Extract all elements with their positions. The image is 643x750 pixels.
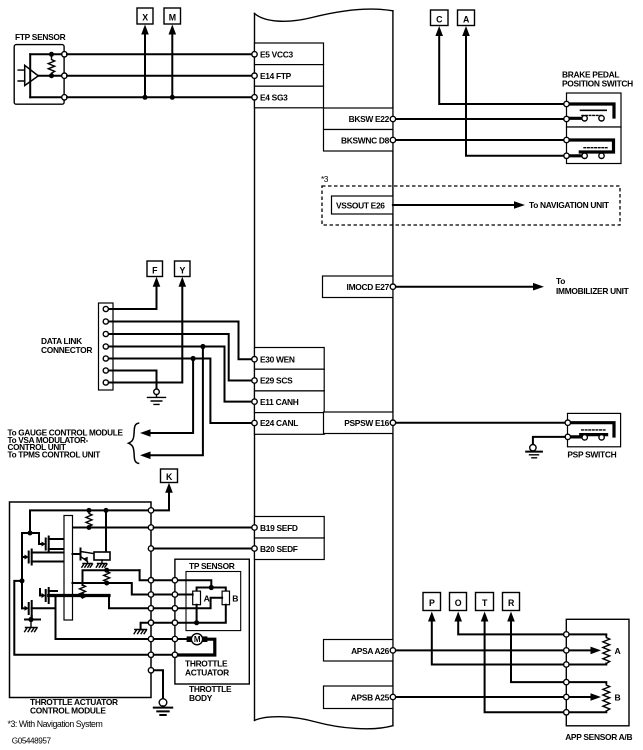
svg-text:*3: *3 <box>321 174 329 184</box>
node B20 SEDF <box>252 546 257 551</box>
svg-text:A: A <box>615 646 621 656</box>
wire DLC pin7 to Y <box>107 285 182 383</box>
pin B19 SEFD <box>255 517 325 539</box>
svg-text:PSP SWITCH: PSP SWITCH <box>567 450 616 460</box>
junction R3 bottom <box>80 593 85 598</box>
node module pin B20 <box>148 546 153 551</box>
junction supply rail relay <box>104 508 109 513</box>
ground Q4 <box>25 620 37 632</box>
brake switch S2 box <box>567 127 622 164</box>
node TB pin 1 <box>172 578 177 583</box>
svg-text:E5 VCC3: E5 VCC3 <box>260 50 293 60</box>
switch S1 contact circles <box>582 116 587 121</box>
svg-text:A: A <box>463 14 470 24</box>
junction feedback <box>20 578 25 583</box>
node DLC pin4 <box>103 344 108 349</box>
wire APSB A25 <box>396 696 564 698</box>
node APP pin1 <box>564 632 569 637</box>
potentiometer A <box>603 635 610 664</box>
wire E14 FTP <box>67 75 252 77</box>
wire R to APP B high <box>511 620 564 682</box>
transistor Q1 <box>39 537 64 552</box>
potentiometer A leads <box>566 634 606 664</box>
junction R2 bottom <box>104 581 109 586</box>
switch S2 contact path <box>567 140 614 156</box>
node E4 SG3 <box>252 95 257 100</box>
svg-text:POSITION SWITCH: POSITION SWITCH <box>562 79 633 89</box>
wire left feedback to motor minus <box>14 581 151 655</box>
APP sensor box <box>566 619 629 726</box>
wire DLC pin5 to E24 CANL <box>107 359 252 424</box>
svg-text:BKSW E22: BKSW E22 <box>349 114 390 124</box>
svg-text:A: A <box>204 593 210 603</box>
switch S3 dotted contact <box>582 429 607 431</box>
node FTP pin 3 <box>62 95 67 100</box>
node module pin M+ <box>148 636 153 641</box>
node DLC pin3 <box>103 331 108 336</box>
ECM/PCM connector column right edge <box>392 11 394 726</box>
pin E30 WEN <box>255 348 325 370</box>
ground DLC <box>148 389 166 404</box>
junction supply rail R1 <box>87 508 92 513</box>
wire to immobilizer unit <box>396 286 535 288</box>
connector R <box>503 593 520 611</box>
node module pin TP4 <box>148 620 153 625</box>
transistor Q4 <box>22 601 56 620</box>
switch S1 bar <box>580 109 607 111</box>
node S3 pin bottom <box>565 434 570 439</box>
node module pin TP1 <box>148 578 153 583</box>
wire rail A to TP1 <box>83 570 140 585</box>
svg-text:P: P <box>429 598 435 608</box>
pin PSPSW E16 <box>324 412 393 434</box>
svg-text:TP SENSOR: TP SENSOR <box>189 561 235 571</box>
svg-text:CONNECTOR: CONNECTOR <box>41 345 92 355</box>
node FTP pin 1 <box>62 52 67 57</box>
node B19 SEFD <box>252 525 257 530</box>
wire relay feed <box>105 510 107 552</box>
svg-text:E11 CANH: E11 CANH <box>260 397 299 407</box>
node FTP pin 2 <box>62 73 67 78</box>
resistor R1 <box>86 512 92 528</box>
wiper B arrow <box>566 696 592 698</box>
svg-text:E30 WEN: E30 WEN <box>260 354 295 364</box>
svg-text:E29 SCS: E29 SCS <box>260 376 293 386</box>
svg-text:*3: With Navigation System: *3: With Navigation System <box>8 719 103 729</box>
ground TP4 stub <box>134 630 146 634</box>
switch S1 contact path <box>567 104 615 118</box>
wire DLC pin2 to E30 WEN <box>107 322 252 360</box>
potentiometer B <box>603 683 610 712</box>
potentiometer B leads <box>566 682 606 712</box>
wire TP1 to sensor <box>154 580 212 587</box>
junction FTP resistor bottom <box>49 73 54 78</box>
node E30 WEN <box>252 357 257 362</box>
svg-text:PSPSW E16: PSPSW E16 <box>344 418 389 428</box>
node TB pin 2 <box>172 592 177 597</box>
svg-text:M: M <box>169 13 176 23</box>
wire relay to ground <box>101 560 103 564</box>
transistor Q3 <box>40 588 57 603</box>
node TB pin 5 <box>172 636 177 641</box>
svg-text:G05448957: G05448957 <box>12 737 52 746</box>
pin B20 SEDF <box>255 538 325 560</box>
node E29 SCS <box>252 378 257 383</box>
node DLC pin2 <box>103 319 108 324</box>
connector T <box>476 593 494 611</box>
svg-text:To: To <box>556 276 565 286</box>
wire DLC pin4 to E11 CANH <box>107 347 252 402</box>
wire TP2 wiper A <box>154 594 193 596</box>
pin E14 FTP <box>255 65 324 87</box>
pin E24 CANL <box>255 413 325 435</box>
switch S3 contact path <box>568 423 614 437</box>
resistor B TP <box>222 591 229 605</box>
resistor A TP <box>193 591 201 605</box>
data link connector J1 box <box>99 303 114 390</box>
ground relay <box>96 564 107 568</box>
pin E4 SG3 <box>255 86 324 108</box>
svg-text:Y: Y <box>180 265 186 275</box>
wiper A arrow <box>566 649 592 651</box>
node module pin TP3 <box>148 606 153 611</box>
node APP pin6 <box>564 710 569 715</box>
node module pin TP2 <box>148 592 153 597</box>
wire P to APP A low <box>432 620 564 665</box>
svg-text:CONTROL MODULE: CONTROL MODULE <box>30 706 106 716</box>
node S1 pin bottom <box>564 116 569 121</box>
wire FTP internal vertical <box>29 54 31 97</box>
pin APSB A25 <box>324 686 393 709</box>
brace <box>129 423 140 464</box>
wire DLC pin6 to ground <box>107 371 157 390</box>
ground PSP <box>526 445 542 458</box>
node BKSW E22 <box>390 116 395 121</box>
wire module to K <box>151 491 169 510</box>
throttle actuator control module box <box>10 502 152 698</box>
node E24 CANL <box>252 420 257 425</box>
node E5 VCC3 <box>252 52 257 57</box>
wire CANH to TPMS arrow <box>147 347 203 456</box>
connector A <box>458 10 475 26</box>
svg-text:APSB A25: APSB A25 <box>351 692 390 702</box>
wire M- to module <box>154 654 173 656</box>
op-amp A1 triangle <box>25 65 39 85</box>
svg-text:B: B <box>232 593 238 603</box>
pin E11 CANH <box>255 391 325 413</box>
node DLC pin5 <box>103 356 108 361</box>
node S3 pin top <box>565 420 570 425</box>
node E11 CANH <box>252 399 257 404</box>
node APP pin2 <box>564 648 569 653</box>
pin E29 SCS <box>255 369 325 391</box>
wire E4 SG3 <box>67 96 252 98</box>
node DLC pin1 <box>103 306 108 311</box>
driver IC bar U2 <box>64 516 73 621</box>
wire motor plus <box>56 596 152 640</box>
wire PSPSW E16 to PSP switch <box>396 422 565 424</box>
svg-text:To TPMS CONTROL UNIT: To TPMS CONTROL UNIT <box>8 451 101 460</box>
wire T to APP B low <box>485 620 564 712</box>
junction M on SG3 <box>170 95 175 100</box>
svg-text:BKSWNC D8: BKSWNC D8 <box>341 135 390 145</box>
op-amp input stubs <box>18 70 25 81</box>
svg-text:E24 CANL: E24 CANL <box>260 418 298 428</box>
svg-text:C: C <box>436 14 443 24</box>
switch S2 dotted contact <box>584 147 607 149</box>
svg-text:M: M <box>194 635 201 644</box>
wire rail C thick Q3 to TP3 <box>49 594 109 597</box>
svg-text:APP SENSOR A/B: APP SENSOR A/B <box>565 732 632 742</box>
wire to connector M <box>171 33 173 97</box>
wire B19 rail <box>73 527 152 529</box>
wire TP3 wiper B <box>154 598 222 609</box>
node TB pin 6 <box>172 652 177 657</box>
svg-text:X: X <box>142 13 148 23</box>
node BKSWNC D8 <box>390 137 395 142</box>
svg-text:B19 SEFD: B19 SEFD <box>260 523 298 533</box>
node PSPSW E16 <box>390 420 395 425</box>
connector K <box>161 469 178 483</box>
throttle body box <box>175 559 249 684</box>
ECM column torn top edge <box>255 9 393 21</box>
wire BKSWNC D8 to switch <box>396 139 564 141</box>
node E14 FTP <box>252 73 257 78</box>
wire B20 SEDF <box>154 548 252 550</box>
brake switch S1 box <box>567 93 622 127</box>
wire M+ to motor <box>154 638 187 640</box>
wire gate feed Q1 <box>30 533 39 544</box>
wire BKSW E22 to switch <box>396 118 564 120</box>
junction R1 bottom <box>87 525 92 530</box>
pin BKSWNC D8 <box>324 130 393 152</box>
connector F <box>147 261 163 277</box>
node S2 pin top <box>564 137 569 142</box>
ground main earth <box>154 699 172 715</box>
transistor Q2 <box>22 550 64 565</box>
svg-text:IMMOBILIZER UNIT: IMMOBILIZER UNIT <box>556 286 630 296</box>
svg-text:B: B <box>615 692 621 702</box>
ECM column torn bottom edge <box>255 717 393 729</box>
wire TP4 ground stub <box>141 623 151 630</box>
junction CANL branch <box>191 356 196 361</box>
switch S2 contact circles <box>582 153 587 158</box>
wire Q4 source node <box>25 619 40 621</box>
svg-text:IMOCD E27: IMOCD E27 <box>347 282 390 292</box>
TP sensor inner box <box>186 572 241 631</box>
wire to connector X <box>144 33 146 97</box>
motor M1 <box>187 634 208 645</box>
svg-text:To NAVIGATION UNIT: To NAVIGATION UNIT <box>529 200 610 210</box>
pin IMOCD E27 <box>323 276 393 298</box>
svg-text:O: O <box>455 598 462 608</box>
PSP switch S3 box <box>568 413 621 446</box>
wire to navigation unit <box>393 204 516 206</box>
wire O to APP A high <box>458 620 563 634</box>
wire DLC pin1 to F <box>107 285 157 309</box>
FTP sensor U1 box <box>14 45 64 105</box>
wire connector A to brake switch <box>466 35 564 156</box>
junction CANH branch <box>200 344 205 349</box>
svg-text:FTP SENSOR: FTP SENSOR <box>15 32 66 42</box>
node module pin M- <box>148 652 153 657</box>
wire CANL to gauge arrow <box>147 359 193 434</box>
node DLC pin7 <box>103 380 108 385</box>
wire module ground pin <box>151 670 163 699</box>
wire B19 SEFD <box>154 527 252 529</box>
node S2 pin bottom <box>564 153 569 158</box>
junction gate node <box>28 531 33 536</box>
wire DLC pin3 to E29 SCS <box>107 334 252 381</box>
wire TP4 sensor ground <box>154 605 226 623</box>
navigation dashed box <box>322 186 620 225</box>
switch S1 dotted contact <box>582 114 603 116</box>
wire FTP internal bottom <box>30 96 64 98</box>
node S1 pin top <box>564 101 569 106</box>
node TB pin 4 <box>172 620 177 625</box>
pin VSSOUT E26 <box>332 196 393 214</box>
node module pin K <box>148 508 153 513</box>
wire motor return <box>178 639 215 655</box>
junction sensor ground <box>194 620 199 625</box>
svg-text:E14 FTP: E14 FTP <box>260 71 292 81</box>
node TB pin 3 <box>172 606 177 611</box>
junction TP sensor top <box>209 585 214 590</box>
node APSB A25 <box>390 694 395 699</box>
svg-text:K: K <box>166 472 173 482</box>
node module pin B19 <box>148 525 153 530</box>
svg-text:BODY: BODY <box>189 693 213 703</box>
wire E5 VCC3 <box>67 53 252 55</box>
node DLC pin6 <box>103 368 108 373</box>
wire APSA A26 <box>396 649 564 651</box>
svg-text:R: R <box>508 598 515 608</box>
resistor R-FTP <box>48 54 54 75</box>
svg-text:B20 SEDF: B20 SEDF <box>260 544 298 554</box>
wire connector C to brake switch <box>439 35 564 105</box>
transistor Q5 BJT <box>73 549 94 564</box>
pin APSA A26 <box>324 640 393 662</box>
wire FTP internal mid <box>38 75 64 77</box>
wire module supply rail <box>30 510 151 533</box>
relay RL1 box <box>94 552 110 560</box>
connector X <box>137 8 153 24</box>
pin BKSW E22 <box>324 108 393 130</box>
junction FTP resistor top <box>49 52 54 57</box>
node IMOCD E27 <box>390 284 395 289</box>
node module pin GND <box>148 668 153 673</box>
junction R2 top <box>104 568 109 573</box>
wire sensor top bar <box>197 588 226 592</box>
connector P <box>423 593 441 611</box>
node APP pin5 <box>564 694 569 699</box>
svg-text:APSA A26: APSA A26 <box>351 646 390 656</box>
svg-text:E4 SG3: E4 SG3 <box>260 92 288 102</box>
node APP pin3 <box>564 662 569 667</box>
connector Y <box>175 261 191 277</box>
node APP pin4 <box>564 679 569 684</box>
svg-text:ACTUATOR: ACTUATOR <box>185 668 229 678</box>
ECM/PCM connector column left edge <box>254 14 256 721</box>
ground Q5 emitter <box>82 564 93 568</box>
node APSA A26 <box>390 648 395 653</box>
junction Q4 ground <box>28 617 33 622</box>
wire rail B to TP2 <box>73 583 152 595</box>
wire FTP internal top <box>30 53 64 55</box>
wire gate feed Q2/Q4 <box>22 533 30 608</box>
switch S3 contact circles <box>582 435 587 440</box>
wire PSP switch to ground <box>533 437 565 445</box>
connector O <box>450 593 467 611</box>
resistor R3 <box>80 585 86 598</box>
svg-text:VSSOUT E26: VSSOUT E26 <box>336 201 385 211</box>
pin E5 VCC3 <box>255 43 324 65</box>
junction X on SG3 <box>143 95 148 100</box>
resistor R2 <box>104 570 110 584</box>
connector C <box>431 10 449 26</box>
connector M <box>164 8 181 24</box>
